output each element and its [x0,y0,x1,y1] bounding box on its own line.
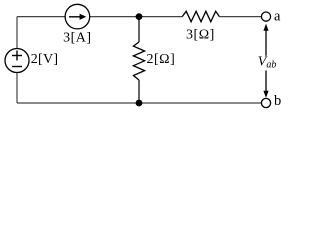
wire top middle segment [90,16,183,18]
wire top-left segment [17,16,65,18]
wire left lower segment [16,73,18,104]
svg-text:3[A]: 3[A] [63,31,91,46]
V_ab arrow up toward a [263,24,268,56]
wire left upper segment [16,17,18,49]
terminal b [261,98,270,107]
resistor 3[Ω] horizontal [182,11,219,21]
current source I1 3[A] [65,4,90,29]
wire top right segment [219,16,261,18]
wire middle vertical upper [138,17,140,42]
junction dot top [136,13,143,20]
wire middle vertical lower [138,80,140,103]
junction dot bottom [136,100,143,107]
V_ab arrow down toward b [263,71,268,98]
svg-text:2[V]: 2[V] [31,52,59,67]
resistor 2[Ω] vertical [133,42,144,80]
wire bottom segment [17,102,262,104]
terminal a [261,12,270,21]
svg-text:3[Ω]: 3[Ω] [186,28,215,43]
svg-text:2[Ω]: 2[Ω] [147,52,176,67]
svg-text:b: b [274,93,281,109]
svg-text:a: a [274,9,281,25]
voltage source V1 2[V] [5,49,29,73]
